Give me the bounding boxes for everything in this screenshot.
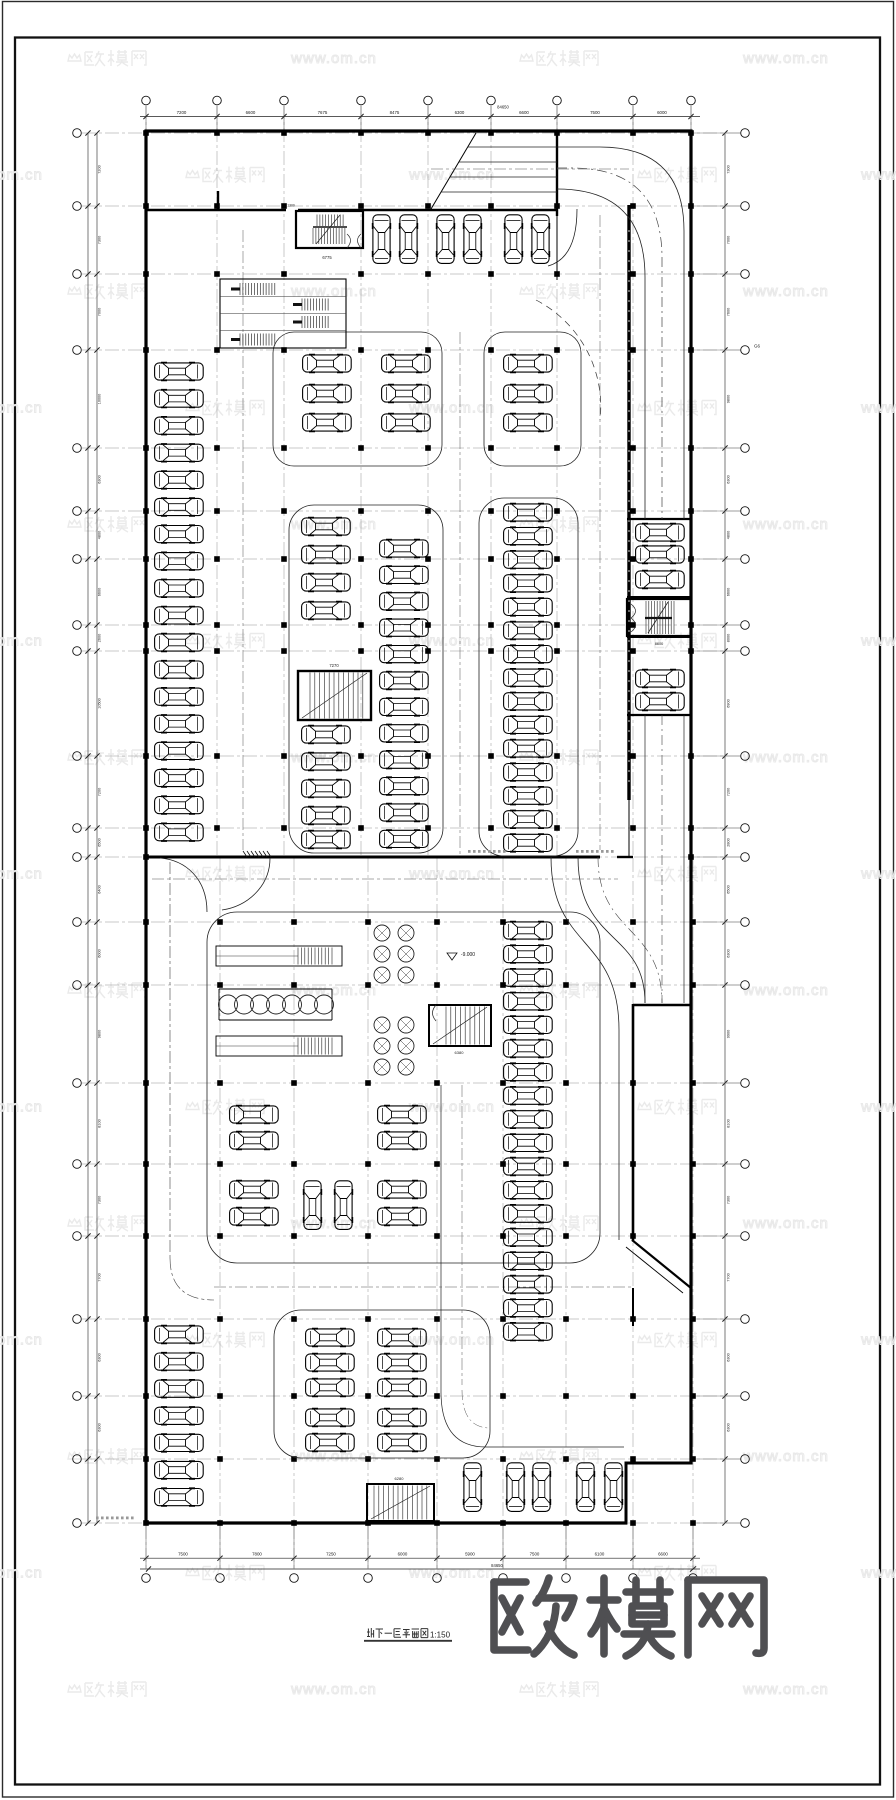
svg-text:6000: 6000 <box>98 949 102 957</box>
svg-text:www.om.cn: www.om.cn <box>860 1099 896 1116</box>
svg-text:6775: 6775 <box>322 255 332 260</box>
svg-text:10000: 10000 <box>98 394 102 405</box>
svg-text:9800: 9800 <box>727 395 731 403</box>
right dimension line <box>693 130 741 1525</box>
stair S5 lower central <box>429 1005 491 1055</box>
svg-text:84650: 84650 <box>491 1563 503 1568</box>
svg-text:7300: 7300 <box>727 1196 731 1204</box>
svg-text:8475: 8475 <box>390 110 400 115</box>
big grey logo 欧模网 <box>494 1578 764 1656</box>
round tables group A <box>374 925 414 983</box>
interior walls <box>146 131 691 1326</box>
svg-text:7000: 7000 <box>98 308 102 316</box>
svg-text:www.om.cn: www.om.cn <box>0 167 43 184</box>
svg-text:7270: 7270 <box>329 663 339 668</box>
svg-text:www.om.cn: www.om.cn <box>860 1332 896 1349</box>
svg-text:6100: 6100 <box>595 1552 605 1557</box>
svg-text:www.om.cn: www.om.cn <box>0 1565 43 1582</box>
svg-text:www.om.cn: www.om.cn <box>860 400 896 417</box>
svg-text:www.om.cn: www.om.cn <box>0 400 43 417</box>
wavy walkway <box>219 989 334 1020</box>
svg-text:6400: 6400 <box>98 885 102 893</box>
svg-text:www.om.cn: www.om.cn <box>0 633 43 650</box>
svg-text:6600: 6600 <box>658 1552 668 1557</box>
svg-text:6300: 6300 <box>455 110 465 115</box>
svg-text:6000: 6000 <box>657 110 667 115</box>
left axis circles <box>73 129 82 1528</box>
svg-text:www.om.cn: www.om.cn <box>408 1565 495 1582</box>
svg-text:www.om.cn: www.om.cn <box>860 633 896 650</box>
svg-text:www.om.cn: www.om.cn <box>742 516 829 533</box>
svg-text:6300: 6300 <box>727 475 731 483</box>
svg-text:4800: 4800 <box>98 531 102 539</box>
svg-text:8100: 8100 <box>98 1119 102 1127</box>
svg-text:www.om.cn: www.om.cn <box>742 1448 829 1465</box>
top axis circles <box>142 96 696 105</box>
svg-text:6500: 6500 <box>98 838 102 846</box>
svg-text:www.om.cn: www.om.cn <box>290 50 377 67</box>
lower-section lanes <box>152 215 633 1447</box>
svg-text:www.om.cn: www.om.cn <box>0 1332 43 1349</box>
svg-text:www.om.cn: www.om.cn <box>290 283 377 300</box>
svg-text:1:150: 1:150 <box>430 1631 451 1640</box>
svg-text:www.om.cn: www.om.cn <box>742 749 829 766</box>
svg-text:7700: 7700 <box>727 1273 731 1281</box>
grid lines <box>82 105 741 1569</box>
svg-text:7600: 7600 <box>727 308 731 316</box>
entrance ramp top <box>431 133 629 209</box>
svg-text:8100: 8100 <box>727 1119 731 1127</box>
escalator upper <box>216 946 342 966</box>
elevation marker -9.000 <box>447 952 475 960</box>
svg-text:www.om.cn: www.om.cn <box>860 866 896 883</box>
car island top col3 <box>504 355 553 432</box>
svg-text:9800: 9800 <box>98 1030 102 1038</box>
svg-text:6600: 6600 <box>727 588 731 596</box>
caption 地下一层平面图 1:150 (drawn strokes) <box>364 1628 452 1641</box>
svg-text:6380: 6380 <box>455 1050 465 1055</box>
svg-text:www.om.cn: www.om.cn <box>290 1681 377 1698</box>
svg-text:6500: 6500 <box>727 885 731 893</box>
svg-text:-9.000: -9.000 <box>461 952 475 958</box>
car row bottom vertical <box>464 1463 623 1512</box>
car column mid col2 <box>380 540 429 848</box>
svg-text:7500: 7500 <box>590 110 600 115</box>
svg-text:www.om.cn: www.om.cn <box>742 1215 829 1232</box>
car column: left wall upper <box>155 363 204 841</box>
stair S2 escalator flights <box>220 279 346 348</box>
svg-text:7300: 7300 <box>98 236 102 244</box>
bottom axis circles <box>142 1574 698 1583</box>
svg-text:6300: 6300 <box>727 949 731 957</box>
car island top col1 <box>303 355 431 432</box>
svg-text:6600: 6600 <box>519 110 529 115</box>
lane loops <box>207 332 600 1458</box>
svg-text:8600: 8600 <box>655 642 663 646</box>
svg-text:www.om.cn: www.om.cn <box>0 1099 43 1116</box>
left dimension lines <box>85 130 101 1525</box>
svg-text:7800: 7800 <box>252 1552 262 1557</box>
car island bottom cols <box>306 1329 427 1452</box>
escalator lower <box>216 1036 342 1056</box>
svg-text:7700: 7700 <box>98 1273 102 1281</box>
rolling shutter hatch on divider wall <box>243 851 271 857</box>
svg-text:www.om.cn: www.om.cn <box>408 866 495 883</box>
svg-text:7500: 7500 <box>530 1552 540 1557</box>
svg-text:6300: 6300 <box>98 1353 102 1361</box>
stair S6 bottom <box>367 1476 434 1521</box>
svg-text:www.om.cn: www.om.cn <box>742 283 829 300</box>
svg-text:7000: 7000 <box>727 236 731 244</box>
car group right corridor <box>636 524 685 711</box>
svg-text:6600: 6600 <box>98 588 102 596</box>
svg-text:6000: 6000 <box>398 1552 408 1557</box>
perimeter walls <box>145 130 693 1525</box>
svg-text:7200: 7200 <box>98 165 102 173</box>
top dimension line <box>140 105 700 132</box>
svg-text:7300: 7300 <box>727 165 731 173</box>
bottom dimension lines <box>140 1523 700 1572</box>
svg-text:www.om.cn: www.om.cn <box>408 633 495 650</box>
stair S3 central <box>298 663 371 720</box>
svg-text:2600: 2600 <box>98 634 102 642</box>
svg-text:6300: 6300 <box>98 475 102 483</box>
svg-text:6900: 6900 <box>727 699 731 707</box>
car column mid-right long upper <box>504 504 553 852</box>
round tables group B <box>374 1017 414 1075</box>
stair S4 right corridor <box>627 599 691 646</box>
svg-text:7200: 7200 <box>727 788 731 796</box>
car column mid col1 <box>302 518 351 849</box>
top-right ramp curves <box>536 147 684 519</box>
svg-text:1300: 1300 <box>287 204 295 208</box>
svg-text:6300: 6300 <box>727 1423 731 1431</box>
structural column squares <box>143 130 696 1526</box>
car island lower pairs <box>230 1106 427 1230</box>
svg-text:7300: 7300 <box>98 1196 102 1204</box>
svg-text:6280: 6280 <box>395 1476 405 1481</box>
svg-text:www.om.cn: www.om.cn <box>408 1099 495 1116</box>
svg-text:2800: 2800 <box>727 838 731 846</box>
svg-text:www.om.cn: www.om.cn <box>742 1681 829 1698</box>
svg-text:6600: 6600 <box>246 110 256 115</box>
svg-text:6300: 6300 <box>98 1423 102 1431</box>
svg-text:www.om.cn: www.om.cn <box>742 982 829 999</box>
svg-text:7500: 7500 <box>178 1552 188 1557</box>
car column mid-right long lower <box>504 922 553 1341</box>
svg-text:5900: 5900 <box>465 1552 475 1557</box>
svg-text:7200: 7200 <box>98 788 102 796</box>
svg-text:www.om.cn: www.om.cn <box>0 866 43 883</box>
svg-text:www.om.cn: www.om.cn <box>860 1565 896 1582</box>
right axis circles <box>741 129 761 1528</box>
svg-text:7200: 7200 <box>177 110 187 115</box>
svg-text:9900: 9900 <box>727 1030 731 1038</box>
svg-text:8000: 8000 <box>727 634 731 642</box>
svg-text:7675: 7675 <box>318 110 328 115</box>
svg-text:G6: G6 <box>754 344 761 349</box>
car column left wall lower <box>155 1326 204 1506</box>
tiny annotation marks near divider <box>96 850 614 1519</box>
stair S1 top <box>287 204 363 261</box>
svg-text:www.om.cn: www.om.cn <box>742 50 829 67</box>
svg-text:4800: 4800 <box>727 531 731 539</box>
svg-text:84650: 84650 <box>497 105 509 110</box>
car row: top vertical cars <box>373 215 550 264</box>
svg-text:10500: 10500 <box>98 698 102 709</box>
svg-text:www.om.cn: www.om.cn <box>860 167 896 184</box>
svg-text:7250: 7250 <box>326 1552 336 1557</box>
svg-text:6300: 6300 <box>727 1353 731 1361</box>
corridor lanes lower <box>551 715 684 1240</box>
